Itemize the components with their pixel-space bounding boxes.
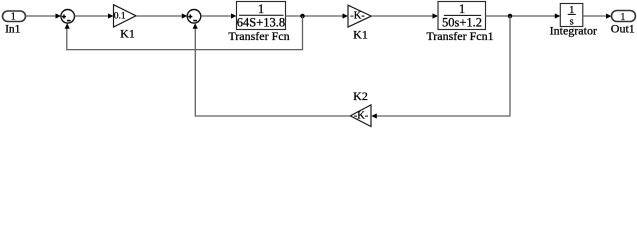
transfer function block Transfer Fcn1 1/(50s+1.2)	[438, 2, 486, 30]
arrowhead into Sum1	[56, 13, 62, 18]
svg-text:0.1: 0.1	[114, 11, 126, 21]
wire K2 output to Sum2 bottom	[195, 26, 350, 116]
wire In1 to Sum1	[26, 15, 58, 17]
integrator block 1/s	[560, 4, 583, 28]
arrowhead into Transfer Fcn1	[433, 13, 439, 18]
svg-text:K2: K2	[353, 89, 368, 103]
arrowhead up into Sum2 bottom	[193, 23, 198, 29]
arrowhead up into Sum1 bottom	[65, 23, 70, 29]
svg-text:K1: K1	[353, 27, 368, 41]
wire inner feedback: branch down	[67, 16, 303, 50]
sum junction Sum1	[61, 9, 75, 23]
svg-text:-K-: -K-	[350, 10, 365, 21]
arrowhead into Gain K1	[343, 13, 349, 18]
wire outer feedback: branch down to K2 rail	[375, 16, 510, 116]
svg-text:In1: In1	[5, 23, 21, 35]
arrowhead into Integrator	[555, 13, 561, 18]
inport In1	[3, 11, 26, 23]
wire Gain 0.1 to Sum2	[136, 15, 184, 17]
outport Out1	[612, 11, 636, 23]
svg-text:64S+13.8: 64S+13.8	[237, 15, 285, 29]
gain block -K- (K1)	[348, 5, 371, 27]
svg-text:1: 1	[11, 12, 16, 23]
svg-text:Integrator: Integrator	[550, 23, 597, 37]
wire Integrator to Out1	[583, 15, 608, 17]
arrowhead into Out1	[606, 14, 612, 19]
arrowhead left into Gain K2	[371, 113, 377, 118]
wire Gain K1 to Transfer Fcn1	[371, 15, 434, 17]
arrowhead into Transfer Fcn	[231, 13, 237, 18]
svg-text:K1: K1	[120, 27, 135, 41]
wire Sum1 to Gain 0.1	[75, 15, 110, 17]
svg-text:1: 1	[258, 2, 264, 16]
svg-text:Transfer Fcn1: Transfer Fcn1	[426, 29, 493, 43]
wire Transfer Fcn1 to Integrator	[486, 15, 557, 17]
svg-text:-K-: -K-	[354, 111, 369, 122]
wire Sum2 to Transfer Fcn	[201, 15, 233, 17]
wire Transfer Fcn to Gain K1	[286, 15, 345, 17]
gain block -K- (K2), pointing left	[350, 105, 371, 127]
transfer function block Transfer Fcn 1/(64S+13.8)	[237, 2, 286, 30]
svg-text:50s+1.2: 50s+1.2	[442, 15, 482, 29]
sum junction Sum2	[187, 9, 201, 23]
arrowhead into Gain 0.1	[108, 13, 114, 18]
gain block 0.1 (K1)	[114, 5, 137, 27]
svg-text:1: 1	[459, 2, 465, 16]
junction node after Transfer Fcn1	[508, 14, 513, 19]
svg-text:Out1: Out1	[611, 21, 635, 35]
junction node after Transfer Fcn	[300, 14, 305, 19]
arrowhead into Sum2	[182, 13, 188, 18]
svg-text:Transfer Fcn: Transfer Fcn	[228, 29, 289, 43]
